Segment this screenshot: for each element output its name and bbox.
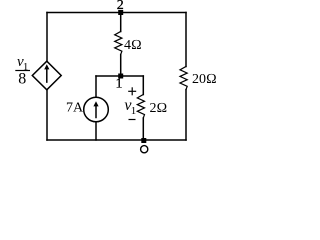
resistor R1 4ohm zigzag — [115, 32, 122, 55]
current source I1 7A circle — [84, 97, 109, 122]
terminal open circle — [141, 146, 148, 153]
wire 2-ohm branch upper stub — [142, 76, 144, 95]
dependent source U1 arrow shaft — [46, 69, 48, 82]
svg-text:v1: v1 — [124, 97, 136, 117]
current source I1 arrowhead — [93, 101, 98, 106]
polarity minus sign — [129, 119, 136, 121]
wire node 1 rail — [96, 75, 143, 77]
node 1 junction dot — [118, 74, 123, 79]
node 2 junction dot — [118, 10, 123, 15]
dependent source U1 diamond — [32, 61, 61, 90]
dependent source U1 arrowhead — [44, 64, 49, 69]
wire right lower (20 ohm to bottom rail) — [185, 90, 187, 140]
polarity plus sign — [128, 87, 136, 95]
svg-text:4Ω: 4Ω — [124, 38, 142, 53]
resistor R2 2ohm zigzag — [137, 95, 144, 119]
wire bottom rail — [47, 139, 186, 141]
wire 7A branch lower — [95, 122, 97, 140]
wire 2-ohm branch lower stub — [142, 118, 144, 140]
resistor R3 20ohm zigzag — [180, 67, 187, 90]
wire top (node 2 rail) — [47, 12, 186, 14]
wire 4-ohm branch upper stub — [120, 13, 122, 32]
bottom terminal junction dot — [141, 138, 146, 143]
wire 4-ohm branch lower stub — [120, 55, 122, 77]
svg-text:20Ω: 20Ω — [192, 72, 217, 87]
wire left lower (dependent source to bottom rail) — [46, 90, 48, 140]
svg-text:2: 2 — [117, 0, 124, 13]
svg-text:1: 1 — [116, 76, 123, 91]
control label fraction bar — [15, 70, 30, 72]
svg-text:8: 8 — [18, 70, 26, 87]
current source I1 arrow shaft — [95, 106, 97, 118]
wire 7A branch upper — [95, 76, 97, 97]
svg-text:2Ω: 2Ω — [150, 101, 168, 116]
svg-text:7A: 7A — [66, 101, 84, 116]
wire right upper (top rail to 20 ohm) — [185, 13, 187, 67]
wire left upper (top rail to dependent source) — [46, 13, 48, 62]
